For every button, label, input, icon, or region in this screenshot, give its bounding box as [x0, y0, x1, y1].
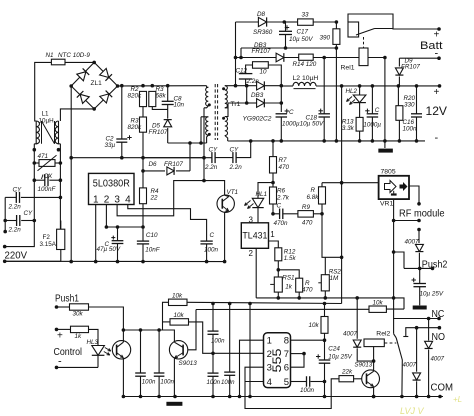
- svg-text:68k: 68k: [156, 93, 167, 100]
- svg-text:NTC 10D-9: NTC 10D-9: [58, 52, 90, 59]
- resistor 10k upper: [169, 299, 188, 305]
- wire 555 pin3 pin4 tie: [245, 367, 339, 408]
- capacitor C 100n primary: [200, 240, 212, 242]
- svg-text:30k: 30k: [73, 311, 84, 318]
- capacitor CX 100nF: [33, 178, 37, 182]
- svg-text:CY: CY: [209, 147, 219, 154]
- svg-text:HL3: HL3: [87, 339, 99, 346]
- wire HL1 cathode to TL431: [257, 208, 259, 223]
- relay Rel2 NO contact: [406, 328, 440, 337]
- svg-text:7805: 7805: [381, 169, 396, 176]
- svg-text:6.8k: 6.8k: [307, 194, 320, 201]
- capacitor C18 1000u/10u 50V: [323, 58, 325, 114]
- capacitor C8 10n: [167, 86, 169, 102]
- svg-text:COM: COM: [431, 382, 454, 394]
- wire 10k pair feed: [159, 302, 168, 330]
- svg-text:CY: CY: [230, 147, 240, 154]
- svg-text:10k: 10k: [172, 293, 183, 300]
- diode 4007 rel2 flyback: [356, 298, 358, 339]
- thermistor N1 NTC 10D-9: [51, 59, 65, 65]
- svg-text:3: 3: [114, 195, 120, 206]
- wire pin1 to ground: [95, 205, 97, 262]
- svg-text:100nF: 100nF: [38, 186, 57, 193]
- svg-text:555: 555: [270, 348, 284, 372]
- wire rail B y309.5: [196, 308, 369, 310]
- wire D6 branch: [189, 143, 191, 171]
- svg-text:-: -: [435, 48, 439, 60]
- capacitor C12 2.2n snubber: [239, 73, 253, 75]
- svg-text:VR1: VR1: [380, 201, 393, 208]
- svg-text:330: 330: [404, 101, 415, 108]
- diode 4007 NO: [427, 317, 431, 321]
- diode DB3 lower secondary: [245, 101, 249, 105]
- wire pin3 route: [117, 181, 204, 216]
- svg-text:Push1: Push1: [55, 292, 79, 304]
- svg-text:C24: C24: [328, 346, 340, 353]
- svg-text:100n: 100n: [204, 247, 219, 254]
- resistor R13 3.3k: [359, 103, 361, 118]
- svg-text:S9013: S9013: [179, 360, 198, 367]
- relay Rel2 contact blade: [394, 334, 397, 338]
- wire primary minus rail y158: [71, 157, 204, 159]
- svg-text:1: 1: [93, 195, 99, 206]
- diode DB3 upper secondary: [245, 84, 249, 88]
- svg-text:33µ: 33µ: [105, 142, 116, 149]
- node earth stub: [4, 221, 6, 232]
- node Batt plus terminal: [437, 27, 441, 31]
- resistor 10k lower: [170, 319, 189, 325]
- svg-text:HL1: HL1: [256, 191, 268, 198]
- svg-text:C: C: [277, 202, 282, 209]
- resistor 10k horizontal right: [369, 306, 386, 312]
- diode DB3 FR107 series: [276, 53, 284, 62]
- resistor R 6.8k: [321, 183, 323, 187]
- svg-text:10: 10: [260, 69, 268, 76]
- svg-text:10k: 10k: [174, 312, 185, 319]
- transformer Tr1 core: [214, 84, 216, 140]
- transformer Tr1 secondary bottom winding: [225, 117, 228, 136]
- svg-text:2.2n: 2.2n: [8, 227, 22, 234]
- bridge rectifier ZL1: [71, 62, 117, 109]
- svg-text:22: 22: [150, 195, 159, 202]
- svg-text:NO: NO: [432, 331, 446, 343]
- svg-text:10µ 50V: 10µ 50V: [289, 36, 313, 43]
- varistor 471: [33, 161, 37, 165]
- svg-text:VT1: VT1: [227, 189, 239, 196]
- svg-text:R6: R6: [277, 188, 286, 195]
- wire bridge plus rail y85.7: [118, 85, 207, 87]
- wire CY1 left drop: [4, 197, 6, 220]
- ground bar s9013: [166, 402, 182, 406]
- svg-text:FR107: FR107: [252, 48, 271, 55]
- svg-text:Push2: Push2: [422, 259, 448, 271]
- svg-text:2.2n: 2.2n: [204, 164, 218, 171]
- resistor R6 2.7k: [270, 187, 277, 204]
- wire primary bottom to VT1: [203, 108, 205, 181]
- wire bridge AC2 to L1 right: [60, 109, 94, 121]
- ground bar push2: [413, 306, 427, 310]
- svg-text:+L: +L: [453, 395, 462, 404]
- wire rel2 dashed link: [385, 342, 397, 344]
- phototransistor HL3 output: [112, 341, 130, 359]
- svg-text:3.15A: 3.15A: [40, 241, 57, 248]
- wire R6.8k to RS2: [322, 214, 342, 257]
- wire rail A +12 distribution y303.5: [187, 302, 342, 303]
- svg-text:R9: R9: [302, 204, 311, 211]
- svg-text:1000µ: 1000µ: [363, 121, 381, 128]
- wire column x250: [249, 304, 251, 397]
- resistor R20 330: [397, 86, 399, 106]
- capacitor 100n hl3 a: [140, 330, 142, 373]
- svg-text:Batt: Batt: [420, 40, 443, 52]
- svg-text:-: -: [435, 132, 439, 144]
- capacitor C 47u 50V: [117, 227, 119, 241]
- svg-text:Rel1: Rel1: [341, 65, 355, 72]
- svg-text:1.5k: 1.5k: [284, 255, 297, 262]
- wire TL431 pin1 to R12: [269, 241, 279, 248]
- svg-text:8: 8: [284, 336, 289, 347]
- svg-text:6: 6: [284, 363, 289, 374]
- svg-text:FR107: FR107: [149, 129, 168, 136]
- svg-text:C: C: [289, 109, 294, 116]
- capacitor 100n hl3 b: [158, 330, 160, 373]
- svg-text:1: 1: [270, 230, 275, 239]
- svg-text:12V: 12V: [426, 104, 448, 118]
- svg-text:CX: CX: [44, 173, 54, 180]
- svg-text:10µ 25V: 10µ 25V: [328, 353, 352, 360]
- IC U2 TL431: [241, 223, 268, 249]
- svg-text:100n: 100n: [300, 387, 315, 394]
- svg-text:820k: 820k: [128, 124, 143, 131]
- transformer Tr1 primary winding: [206, 87, 209, 106]
- node AC live terminal: [3, 245, 7, 249]
- wire 7805 column x393: [393, 199, 395, 319]
- resistor R12 1.5k: [275, 248, 282, 261]
- resistor R 470 lower: [278, 270, 299, 278]
- capacitor CY 2.2n secondary right: [215, 157, 233, 159]
- svg-text:33: 33: [302, 12, 310, 19]
- svg-text:47µ 50V: 47µ 50V: [97, 246, 121, 253]
- svg-text:C: C: [375, 107, 380, 114]
- svg-text:CY: CY: [24, 210, 34, 217]
- wire bridge minus column: [70, 86, 72, 262]
- svg-text:10k: 10k: [309, 322, 320, 329]
- svg-text:SR360: SR360: [253, 29, 273, 36]
- svg-text:10n: 10n: [174, 102, 185, 109]
- transformer Tr1 secondary top winding: [225, 86, 228, 108]
- IC U3 555: [264, 333, 291, 388]
- diode D8 SR360: [258, 17, 266, 26]
- capacitor C 470n: [273, 213, 279, 215]
- ground bar 12V section: [384, 141, 386, 148]
- resistor 30k: [55, 305, 59, 309]
- resistor 22k: [339, 376, 354, 382]
- wire pin2 node: [106, 205, 143, 228]
- diode D9 FR107: [398, 58, 400, 66]
- trimmer RS1 1k: [274, 277, 282, 292]
- resistor 33: [284, 21, 297, 23]
- IC U1 5L0380R: [89, 173, 135, 204]
- diode D5 FR107: [167, 109, 169, 118]
- wire 7805 out to RF module: [409, 186, 419, 204]
- svg-text:7: 7: [284, 349, 289, 360]
- wire top rail y22: [236, 21, 259, 23]
- svg-text:RS1: RS1: [282, 275, 294, 282]
- svg-text:3: 3: [267, 363, 272, 374]
- capacitor 100n mid upper: [212, 304, 214, 331]
- resistor 390: [335, 22, 337, 29]
- wire 555 pin1 ground: [240, 340, 264, 396]
- wire 555 pin7 pin6: [291, 353, 305, 355]
- svg-text:2.7k: 2.7k: [276, 195, 290, 202]
- svg-text:220V: 220V: [5, 250, 28, 262]
- resistor R3 820k: [142, 107, 144, 117]
- svg-text:820k: 820k: [128, 93, 143, 100]
- svg-text:100n: 100n: [160, 379, 174, 386]
- capacitor C2 33u: [121, 86, 123, 139]
- svg-text:3.3k: 3.3k: [342, 125, 355, 132]
- svg-text:3: 3: [249, 216, 254, 225]
- svg-text:R: R: [311, 187, 316, 194]
- diode D6 FR107: [143, 170, 165, 172]
- transistor S9013 first: [169, 341, 187, 359]
- wire Push2 row: [404, 267, 433, 269]
- svg-text:CY: CY: [13, 187, 23, 194]
- relay Rel1 coil: [363, 37, 365, 48]
- svg-text:2.2n: 2.2n: [8, 204, 22, 211]
- svg-text:L2 10µH: L2 10µH: [293, 75, 319, 82]
- svg-text:TL431: TL431: [242, 231, 267, 241]
- svg-text:FR107: FR107: [401, 64, 420, 71]
- svg-text:2.2n: 2.2n: [229, 164, 243, 171]
- capacitor CY 2.2n lower: [5, 220, 16, 222]
- svg-text:2: 2: [104, 195, 110, 206]
- wire 12V feed column x341.6: [341, 86, 343, 304]
- wire pin4 route: [128, 205, 207, 241]
- svg-text:2: 2: [267, 349, 272, 360]
- svg-text:4: 4: [267, 377, 272, 388]
- capacitor 10u 25V push2: [419, 268, 421, 283]
- wire bottom ground rail: [123, 396, 443, 398]
- svg-text:100n: 100n: [211, 338, 225, 345]
- wire pullup node y330: [123, 330, 174, 341]
- relay Rel2 coil: [364, 339, 384, 347]
- svg-text:10µ 25V: 10µ 25V: [420, 291, 444, 298]
- resistor R2 820k: [140, 91, 147, 106]
- svg-text:C10: C10: [146, 232, 158, 239]
- svg-text:4007: 4007: [343, 330, 358, 337]
- svg-text:RF module: RF module: [399, 208, 445, 220]
- svg-text:HL2: HL2: [346, 88, 358, 95]
- svg-text:YG902C2: YG902C2: [243, 116, 272, 123]
- capacitor C17 10u 50V: [285, 27, 289, 29]
- capacitor C 1000u raw: [276, 113, 288, 115]
- svg-text:-: -: [58, 356, 62, 368]
- svg-text:Rel2: Rel2: [376, 331, 390, 338]
- resistor R3 68k: [149, 91, 156, 106]
- wire 555 pin8: [291, 339, 325, 341]
- wire ground rail primary y261.6: [5, 260, 225, 262]
- node RF module gnd terminal: [417, 219, 421, 223]
- capacitor C10 10nF: [142, 227, 144, 241]
- trimmer RS2 1M: [324, 257, 326, 274]
- capacitor CY 2.2n upper: [5, 196, 17, 198]
- relay Rel1 contact: [348, 14, 439, 29]
- wire CX column left: [33, 144, 35, 180]
- svg-text:C17: C17: [297, 29, 309, 36]
- capacitor C 1000u filtered: [371, 86, 373, 114]
- wire ground rail 12V y140.9: [228, 140, 425, 142]
- transistor S9013 second: [354, 378, 367, 380]
- svg-text:N1: N1: [46, 52, 54, 59]
- transformer Tr1 aux winding: [206, 117, 209, 135]
- resistor R 10 snubber: [253, 62, 269, 68]
- svg-text:C: C: [210, 232, 215, 239]
- node AC neutral terminal: [3, 260, 7, 264]
- wire C24 to ground: [324, 382, 326, 397]
- wire Batt minus: [399, 57, 439, 59]
- svg-text:100n: 100n: [221, 379, 235, 386]
- svg-text:FR107: FR107: [164, 161, 183, 168]
- wire 26V to Rel1 coil y57.5: [236, 57, 360, 59]
- svg-text:LVJ V: LVJ V: [400, 406, 425, 416]
- svg-text:470: 470: [302, 287, 313, 294]
- svg-text:D8: D8: [257, 11, 266, 18]
- wire 10k2 to 555 pin2: [189, 322, 264, 353]
- wire snubber feed column: [235, 22, 237, 86]
- svg-text:100n: 100n: [142, 379, 156, 386]
- svg-text:4: 4: [125, 195, 131, 206]
- svg-text:C12: C12: [236, 68, 248, 75]
- svg-text:ZL1: ZL1: [91, 80, 103, 87]
- svg-text:390: 390: [320, 35, 331, 42]
- svg-text:471: 471: [38, 153, 49, 160]
- wire DB3 output column: [280, 86, 282, 112]
- wire TL431 rail y297.9: [256, 298, 404, 309]
- svg-text:D6: D6: [149, 161, 158, 168]
- resistor 10k timing: [324, 304, 326, 317]
- svg-text:10nF: 10nF: [145, 247, 161, 254]
- svg-text:5L0380R: 5L0380R: [93, 178, 130, 189]
- wire aux top jog: [200, 117, 202, 143]
- svg-text:470: 470: [302, 219, 313, 226]
- capacitor C16 100n: [416, 86, 418, 114]
- svg-text:+: +: [434, 87, 440, 98]
- svg-text:4007: 4007: [431, 356, 445, 363]
- svg-text:S9013: S9013: [355, 362, 373, 369]
- svg-text:100n: 100n: [403, 125, 418, 132]
- svg-text:22k: 22k: [341, 369, 353, 376]
- svg-text:1000µ10µ 50V: 1000µ10µ 50V: [282, 120, 324, 127]
- wire L1 left to NTC: [35, 62, 52, 121]
- diode 4007 lower: [416, 328, 418, 372]
- svg-text:1: 1: [267, 336, 272, 347]
- svg-text:DB3: DB3: [251, 92, 264, 99]
- svg-text:NC: NC: [432, 308, 445, 320]
- resistor R4 22: [142, 158, 144, 188]
- wire clamp node y143: [168, 142, 207, 144]
- svg-text:4007: 4007: [403, 362, 417, 369]
- capacitor C24 10u 25V: [324, 340, 326, 360]
- capacitor 100n right column: [229, 304, 231, 372]
- svg-text:470: 470: [279, 164, 290, 171]
- node 12V plus rail dots: [340, 84, 344, 88]
- wire TL431 pin2 column: [255, 248, 257, 298]
- node control minus terminal: [55, 366, 59, 370]
- svg-text:470n: 470n: [274, 220, 289, 227]
- resistor 1k control: [55, 328, 59, 332]
- regulator VR1 7805: [322, 182, 379, 184]
- node RF module data terminal: [417, 228, 421, 232]
- resistor R14 120: [299, 54, 314, 60]
- capacitor 100n mid lower: [212, 353, 214, 373]
- svg-text:2: 2: [249, 249, 254, 258]
- svg-text:1M: 1M: [330, 275, 340, 282]
- fuse F2: [60, 250, 62, 262]
- wire CX column right: [59, 144, 61, 198]
- wire NC row: [394, 319, 439, 334]
- resistor R9 470: [298, 211, 314, 218]
- resistor R7 470: [272, 141, 274, 157]
- phototransistor VT1: [217, 195, 234, 212]
- svg-text:5: 5: [284, 377, 289, 388]
- svg-text:Tr1: Tr1: [231, 101, 241, 108]
- svg-text:R14 120: R14 120: [293, 61, 317, 68]
- svg-text:1k: 1k: [285, 283, 293, 290]
- svg-text:+: +: [57, 331, 63, 342]
- capacitor CY 2.2n secondary left: [143, 157, 212, 159]
- svg-text:1k: 1k: [75, 333, 83, 340]
- wire Rel1 coil to ground: [384, 58, 386, 141]
- wire DB3 left link: [246, 86, 248, 103]
- svg-text:10µH: 10µH: [39, 117, 55, 124]
- svg-text:100n: 100n: [207, 379, 221, 386]
- capacitor 100n 555 pin5: [291, 381, 307, 383]
- svg-text:10k: 10k: [373, 300, 384, 307]
